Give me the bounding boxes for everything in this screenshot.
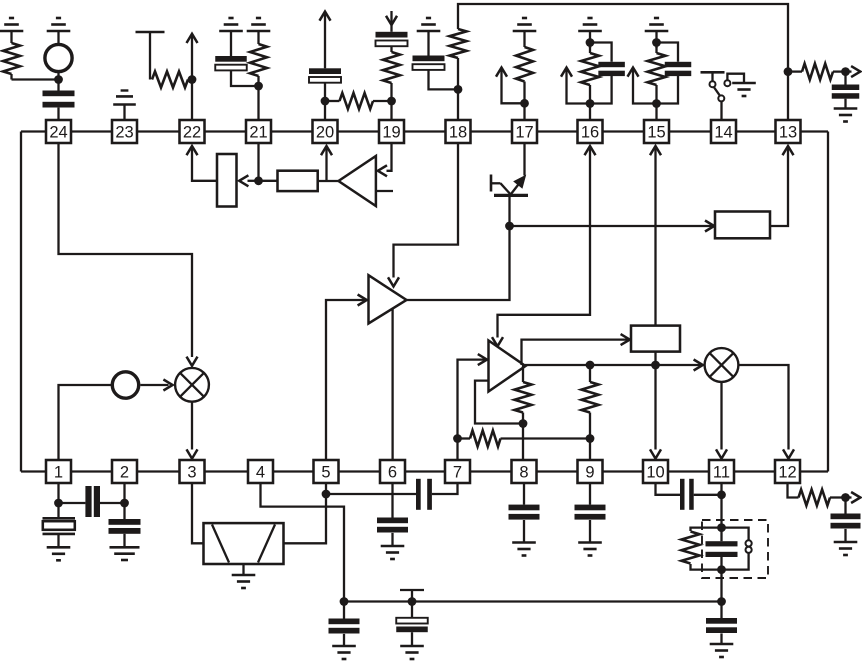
resistor AM osc — [3, 31, 20, 80]
resistor pin 19 — [383, 46, 400, 101]
ground osc resistor — [0, 18, 23, 31]
ground rail ecap — [400, 646, 424, 659]
svg-text:4: 4 — [256, 464, 265, 482]
pin 6 — [380, 460, 405, 483]
arrow box2 to pin 15 — [650, 146, 661, 326]
svg-text:7: 7 — [453, 464, 462, 482]
wire pin 1 to buffer — [59, 385, 112, 460]
pin 13 — [776, 120, 801, 143]
wire pin 17 to Q1 — [523, 143, 525, 176]
wire pin 7 to amp2 — [458, 360, 486, 460]
wire det to pin 13 — [770, 149, 788, 227]
junction — [586, 361, 595, 370]
arrow pin 20 top — [320, 12, 331, 69]
pin 1 — [46, 460, 71, 483]
pin 10 — [643, 460, 668, 483]
resistor pin 17 — [516, 31, 533, 103]
capacitor pin 6 — [377, 518, 408, 546]
mixer stereo — [705, 348, 739, 382]
wire pin 4 feed — [261, 483, 345, 602]
junction — [652, 38, 661, 47]
pin 17 — [512, 120, 537, 143]
ceramic filter — [204, 523, 284, 564]
wire — [655, 31, 657, 48]
arrow pin 19 top — [386, 11, 397, 32]
junction — [188, 75, 197, 84]
op-amp AF — [489, 341, 526, 392]
resistor pin 9 load — [582, 365, 599, 439]
junction — [454, 85, 463, 94]
junction — [717, 490, 726, 499]
pin 18 — [446, 120, 471, 143]
wire pin 5 to amp1 — [326, 300, 365, 460]
capacitor pin 16 — [590, 43, 625, 104]
pin 16 — [578, 120, 603, 143]
wire amp2 out — [525, 364, 701, 366]
wire feedback amp2 — [475, 381, 523, 424]
svg-text:21: 21 — [249, 124, 267, 142]
pin 9 — [578, 460, 603, 483]
wire — [325, 483, 327, 494]
inductor resonator — [722, 528, 752, 570]
resistor pin 22 — [152, 72, 192, 88]
oscillator buffer circle — [112, 372, 138, 398]
svg-text:2: 2 — [120, 464, 129, 482]
arrow into pin 11 — [716, 449, 727, 458]
box detector right — [715, 212, 770, 239]
wire — [391, 483, 393, 518]
wire node to box — [259, 180, 278, 182]
wire pin 11 down — [720, 483, 722, 602]
wire pin 21 down — [257, 143, 259, 181]
pin 12 — [775, 460, 800, 483]
pin 11 — [709, 460, 734, 483]
ground pin 21 res — [247, 18, 271, 31]
capacitor electrolytic pin 20 — [309, 68, 341, 82]
pin 3 — [180, 460, 205, 483]
wire box to amp3 — [318, 180, 340, 182]
wire — [589, 104, 591, 121]
wire — [242, 564, 244, 575]
capacitor pin 9 — [575, 483, 606, 542]
wire pin 12 out — [788, 483, 799, 498]
junction — [717, 565, 726, 574]
arrow into amp1 top — [388, 277, 399, 286]
arrow into mixer left — [163, 380, 172, 391]
resistor pin 13 — [788, 64, 846, 80]
svg-text:11: 11 — [713, 464, 730, 482]
svg-text:18: 18 — [449, 124, 467, 142]
wire switch to ground — [724, 74, 744, 87]
wire amp1 to pin 6 — [391, 308, 393, 460]
capacitor pins 10-11 — [656, 479, 722, 510]
arrow into mixer2 — [694, 360, 703, 371]
wire — [57, 72, 59, 90]
junction — [120, 499, 129, 508]
arrow into pin 13 — [783, 146, 794, 155]
wire bottom pin bus — [21, 470, 828, 472]
junction — [453, 434, 462, 443]
capacitor pin 12 — [831, 498, 861, 542]
junction — [651, 361, 660, 370]
junction — [841, 67, 850, 76]
ground pin 11 — [710, 644, 734, 657]
junction — [54, 499, 63, 508]
pin 5 — [314, 460, 339, 483]
resistor pin 15 — [648, 43, 666, 104]
svg-text:13: 13 — [779, 124, 797, 142]
svg-text:19: 19 — [382, 124, 400, 142]
wire — [191, 80, 193, 121]
wire — [231, 70, 259, 86]
arrow into box2 — [621, 334, 630, 345]
ground pin 14 — [732, 83, 756, 96]
resistor pin 18 — [450, 29, 467, 89]
ground pin 23 — [113, 91, 136, 121]
arrow pin 15 branch — [628, 68, 657, 104]
switch pin 14 — [701, 72, 725, 101]
ground pin 17 — [513, 18, 537, 31]
capacitor electrolytic pin 18 — [413, 31, 445, 70]
wire — [257, 86, 259, 120]
svg-text:5: 5 — [321, 464, 330, 482]
resistor amp2 load — [515, 365, 532, 424]
svg-text:23: 23 — [115, 124, 133, 142]
capacitor pins 1-2 — [59, 486, 125, 517]
wire Vref rail — [344, 600, 722, 602]
wire box2 to node — [654, 352, 656, 365]
wire — [522, 424, 524, 461]
wire pin 24 to mixer — [59, 143, 193, 357]
capacitor resonator — [706, 541, 738, 557]
capacitor pin 24 — [43, 91, 75, 121]
pin 23 — [112, 120, 137, 143]
capacitor pins 5-7 — [326, 479, 458, 510]
wire — [324, 83, 326, 120]
arrow into pin 12 — [783, 449, 794, 458]
arrow into mixer top — [187, 357, 198, 366]
svg-text:9: 9 — [585, 464, 594, 482]
capacitor electrolytic pin 21 — [215, 31, 247, 70]
capacitor pin 15 — [657, 43, 692, 104]
pin 24 — [46, 120, 71, 143]
op-amp left facing — [339, 156, 376, 206]
ground pin 8 — [512, 543, 536, 556]
svg-text:1: 1 — [54, 464, 63, 482]
wire mixer2 to pin 11 — [720, 382, 722, 450]
ground osc coil — [47, 18, 71, 31]
junction — [717, 597, 726, 606]
junction — [784, 67, 793, 76]
capacitor electrolytic pin 19 — [376, 32, 408, 46]
stub amp3 input2 — [376, 190, 393, 192]
wire Vcc top rail — [458, 4, 788, 120]
wire pin 16 bias — [498, 147, 591, 338]
op-amp IF — [369, 275, 407, 323]
svg-text:22: 22 — [183, 124, 201, 142]
arrow into amp1 left — [358, 295, 367, 306]
arrow pin 22 up — [187, 34, 198, 80]
junction — [387, 97, 396, 106]
capacitor pin 11 gnd — [706, 602, 737, 644]
box dashed resonator — [702, 520, 768, 578]
svg-text:20: 20 — [316, 124, 334, 142]
ground pin 6 — [381, 546, 405, 559]
svg-text:17: 17 — [515, 124, 533, 142]
pin 14 — [711, 120, 736, 143]
svg-text:14: 14 — [714, 124, 732, 142]
wire filter to pin 5 — [284, 494, 327, 543]
pin 21 — [246, 120, 271, 143]
arrow mixer to pin 3 — [187, 403, 198, 459]
junction — [340, 597, 349, 606]
wire — [390, 101, 392, 120]
wire top pin bus — [21, 130, 828, 132]
wire — [655, 104, 657, 121]
wire IC left edge — [20, 132, 22, 472]
junction — [586, 99, 595, 108]
resistor pin 16 — [581, 43, 599, 104]
junction — [586, 434, 595, 443]
pin 15 — [644, 120, 669, 143]
capacitor pin 8 — [509, 483, 540, 542]
wire amp1 out — [407, 226, 510, 300]
arrow into amp2 left — [478, 354, 487, 365]
terminal stub pin 22 — [136, 32, 165, 80]
resistor pins 20-19 — [325, 93, 392, 109]
wire — [589, 31, 591, 48]
wire — [429, 70, 459, 90]
resistor pin 21 — [250, 31, 267, 86]
box detector small — [278, 171, 318, 191]
wire buffer to mixer — [140, 384, 168, 386]
svg-text:3: 3 — [187, 464, 196, 482]
pin 20 — [313, 120, 338, 143]
transistor Q1 — [491, 175, 528, 227]
wire IC right edge — [827, 132, 829, 472]
wire — [123, 483, 125, 520]
junction — [717, 523, 726, 532]
junction — [408, 597, 417, 606]
arrow pin 13 out — [846, 66, 861, 77]
junction — [841, 493, 850, 502]
mixer AM — [175, 368, 209, 402]
arrow into amp2 top — [492, 337, 503, 346]
svg-text:16: 16 — [581, 124, 599, 142]
junction — [652, 99, 661, 108]
wire — [720, 101, 722, 120]
box AGC amp2 — [631, 326, 680, 352]
junction — [520, 99, 529, 108]
wire — [589, 439, 591, 461]
coil AM oscillator — [45, 31, 72, 72]
junction — [254, 82, 263, 91]
arrow node to pin 10 — [650, 365, 661, 459]
wire mixer2 to pin 12 — [738, 365, 788, 450]
junction — [519, 419, 528, 428]
arrow into pin 22 — [187, 146, 218, 181]
junction — [586, 38, 595, 47]
pin 19 — [379, 120, 404, 143]
wire — [457, 89, 459, 120]
arrow pin 19 into amp3 — [378, 143, 392, 176]
pin 2 — [112, 460, 137, 483]
svg-text:8: 8 — [519, 464, 528, 482]
ground pin 1 — [47, 547, 71, 560]
resistor pins 7-8 — [458, 431, 591, 447]
capacitor pin 2 — [109, 519, 141, 547]
capacitor electrolytic rail — [396, 590, 428, 646]
svg-text:12: 12 — [778, 464, 796, 482]
ground pin 9 — [578, 543, 602, 556]
ground pin 2 — [110, 547, 140, 560]
capacitor rail bypass — [329, 602, 360, 646]
junction — [54, 75, 63, 84]
arrow pin 17 branch — [496, 68, 525, 104]
ground filter — [232, 575, 256, 588]
junction — [322, 490, 331, 499]
ground rail cap — [332, 646, 356, 659]
box AGC amp tall — [217, 154, 237, 207]
arrow into det box — [705, 221, 714, 232]
arrow into AGC box — [239, 175, 258, 186]
ground pin 13 — [834, 109, 858, 122]
ground pin 12 — [834, 542, 858, 555]
wire amp2 to AGC box2 — [522, 340, 628, 365]
ground pin 18 cap — [417, 18, 441, 31]
capacitor pin 13 — [832, 72, 860, 108]
ground pin 21 cap — [219, 18, 243, 31]
ground pin 16 — [578, 18, 602, 31]
junction — [254, 176, 263, 185]
arrow pin 16 branch — [561, 68, 590, 104]
wire — [523, 103, 525, 120]
svg-text:6: 6 — [388, 464, 397, 482]
pin 4 — [248, 460, 273, 483]
crystal pin 1 — [43, 515, 76, 548]
svg-text:15: 15 — [647, 124, 665, 142]
junction — [321, 97, 330, 106]
ground pin 15 — [645, 18, 669, 31]
resistor pin 12 — [799, 490, 846, 506]
junction — [505, 222, 514, 231]
resistor resonator — [682, 528, 722, 570]
pin 7 — [445, 460, 470, 483]
arrow pin 12 out — [846, 492, 861, 503]
svg-text:24: 24 — [49, 124, 67, 142]
wire Q1 to det box — [510, 225, 713, 227]
arrow into pin 16 — [585, 146, 596, 155]
wire — [57, 483, 59, 515]
wire — [12, 78, 59, 80]
pin 22 — [180, 120, 205, 143]
pin 8 — [512, 460, 537, 483]
wire pin 18 to amp1 top — [394, 143, 459, 278]
svg-text:10: 10 — [646, 464, 664, 482]
wire pin 3 to filter — [192, 483, 204, 543]
arrow into pin 20 — [321, 146, 332, 181]
